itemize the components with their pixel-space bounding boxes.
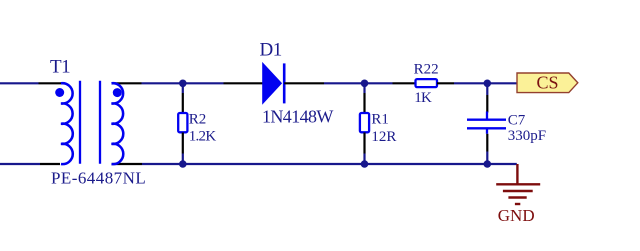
transformer T1 pin 3 (top right, black) [112,82,142,84]
svg-text:T1: T1 [50,57,70,78]
capacitor C7 pin 2 [486,134,488,152]
svg-text:R2: R2 [189,112,207,128]
wire bottom net segment [142,163,517,165]
capacitor C7 top plate [467,119,506,121]
transformer T1 core bar right [99,81,101,164]
wire top segment R22 to CS port [454,82,517,84]
diode D1 triangle [263,63,282,103]
resistor R1 pin 2 [363,133,365,154]
diode D1 cathode bar [283,63,286,103]
wire top-left net segment [0,82,39,84]
resistor R2 pin 2 [182,133,184,154]
ground bar 2 [503,190,533,192]
transformer T1 core bar left [79,81,81,164]
svg-text:R1: R1 [371,112,389,128]
wire R1 top stub [363,83,365,93]
transformer T1 pin 1 (top left, black) [39,82,62,84]
svg-text:PE-64487NL: PE-64487NL [51,169,146,188]
junction node R1 bottom [361,160,369,168]
svg-text:GND: GND [498,206,535,225]
capacitor C7 top stub [486,112,488,120]
diode D1 anode pin [224,82,264,84]
junction node C7 bottom [484,160,492,168]
ground bar 4 [515,203,520,205]
transformer T1 primary phase dot [55,88,64,97]
junction node R1 top [361,80,369,88]
resistor R22 body [416,79,438,87]
wire R2 bottom stub [182,154,184,165]
ground bar 3 [508,196,526,198]
transformer T1 secondary winding [112,83,124,164]
resistor R1 body [360,113,369,132]
port CS flag [517,73,578,93]
transformer T1 primary winding [61,83,73,164]
ground stem [516,164,518,184]
resistor R22 left pin [393,82,416,84]
junction node R2 bottom [179,160,187,168]
wire C7 bottom stub [486,152,488,165]
transformer T1 pin 2 (bottom left, black) [40,163,60,165]
wire C7 top stub [486,83,488,95]
capacitor C7 bottom stub [486,128,488,134]
svg-text:1N4148W: 1N4148W [262,106,333,126]
wire top segment D1 to R22 [324,82,393,84]
svg-text:12R: 12R [371,129,396,145]
resistor R1 pin 1 [363,93,365,113]
capacitor C7 bottom plate [467,127,506,129]
svg-text:CS: CS [536,72,558,92]
ground bar 1 [496,183,540,185]
wire R1 bottom stub [363,154,365,165]
transformer T1 secondary phase dot [113,88,122,97]
svg-text:R22: R22 [414,62,439,78]
capacitor C7 pin 1 [486,95,488,113]
resistor R2 pin 1 [182,93,184,113]
diode D1 cathode pin [284,82,324,84]
svg-text:D1: D1 [260,40,282,61]
junction node R2 top [179,80,187,88]
transformer T1 pin 4 (bottom right, black) [112,163,143,165]
svg-text:1.2K: 1.2K [189,129,217,145]
wire bottom-left net segment [0,163,40,165]
resistor R22 right pin [437,82,454,84]
wire R2 top stub [182,83,184,93]
junction node C7 top [484,80,492,88]
svg-text:1K: 1K [414,90,432,106]
svg-text:330pF: 330pF [508,128,546,144]
resistor R2 body [178,113,187,132]
wire top middle segment T1 to D1 [142,82,224,84]
svg-text:C7: C7 [508,113,526,129]
